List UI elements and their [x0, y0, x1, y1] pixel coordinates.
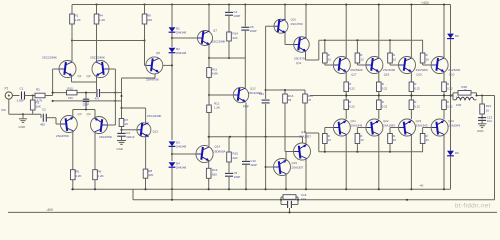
svg-text:Q2: Q2 — [87, 74, 91, 78]
transistor Q11 2SC4793 — [294, 37, 310, 65]
svg-text:R: R — [328, 53, 330, 57]
svg-text:10: 10 — [360, 138, 364, 142]
node output dots — [345, 94, 453, 96]
resistor R11 6.8K — [207, 67, 218, 77]
wire drvA2 emitter — [285, 152, 294, 160]
capacitor C8 220P — [83, 92, 90, 110]
transistor Q5 2SA970K — [146, 51, 163, 82]
transistor Q6 2SC2240K — [137, 114, 162, 137]
wire Q2 emitter — [96, 77, 98, 83]
resistor R12 1.2K — [207, 101, 220, 112]
svg-text:Q14: Q14 — [215, 145, 221, 149]
svg-text:Q5: Q5 — [156, 51, 160, 55]
wire R14 down — [228, 41, 230, 58]
svg-text:0.22: 0.22 — [382, 86, 388, 90]
wire Q7 collector — [208, 5, 210, 32]
svg-text:1.0uF: 1.0uF — [17, 99, 25, 103]
svg-text:6.8K: 6.8K — [212, 72, 218, 76]
node +40V label — [421, 1, 430, 5]
wire emitter join line — [72, 81, 97, 83]
wire Q19 to out — [410, 92, 412, 97]
wire Q17 emitter — [345, 72, 347, 82]
resistor emitter Q20 — [442, 82, 453, 92]
svg-text:2SC2240K: 2SC2240K — [90, 55, 106, 59]
connector P1 input jack — [5, 87, 13, 100]
svg-text:R13: R13 — [212, 168, 218, 172]
svg-text:Q20: Q20 — [449, 73, 455, 77]
wire C5 stub — [244, 5, 246, 27]
wire R1 to node A — [71, 24, 73, 41]
node -40V label — [46, 208, 54, 212]
transistor Q10 2SC4793 — [274, 18, 303, 34]
wire loop bottom — [122, 107, 146, 109]
resistor base Q17 — [323, 40, 334, 65]
resistor base Q19 — [388, 40, 399, 65]
svg-text:R: R — [360, 53, 362, 57]
svg-text:Q4: Q4 — [87, 112, 91, 116]
resistor emitter Q24 — [442, 96, 453, 110]
wire R11 to base node — [208, 77, 210, 95]
node fb lower dots — [52, 100, 117, 102]
wire drvA2 base — [266, 166, 273, 168]
wire Q1 emitter — [71, 77, 73, 83]
capacitor C16 zobel — [284, 201, 296, 208]
svg-text:R1: R1 — [75, 14, 79, 18]
svg-text:470: 470 — [95, 97, 100, 101]
capacitor C6 100P — [225, 171, 240, 179]
svg-text:2SC5200: 2SC5200 — [383, 68, 395, 72]
resistor R10 150 — [67, 86, 78, 100]
wire R3 to ground bus — [32, 110, 34, 114]
wire R9 stub — [144, 5, 146, 15]
svg-text:2SD669A: 2SD669A — [213, 150, 225, 154]
svg-text:C2: C2 — [42, 108, 46, 112]
resistor R1 1.2K — [70, 14, 81, 25]
node lower rail dots — [72, 188, 96, 190]
svg-text:10: 10 — [328, 138, 332, 142]
transistor Q18 2SC5200 — [366, 57, 396, 77]
wire Q9 emitter — [208, 162, 210, 169]
resistor emitter Q21 — [344, 96, 355, 110]
wire R4 top stub — [96, 5, 98, 15]
wire zobel to rail — [289, 208, 291, 212]
svg-text:Q17: Q17 — [351, 73, 357, 77]
svg-text:10: 10 — [360, 58, 364, 62]
svg-text:2SC2240K: 2SC2240K — [42, 55, 58, 59]
svg-text:104: 104 — [301, 197, 306, 201]
svg-text:110P: 110P — [250, 163, 257, 167]
wire R21 to C13 — [481, 114, 483, 119]
svg-text:820: 820 — [212, 172, 217, 176]
svg-text:2N4148: 2N4148 — [176, 31, 187, 35]
wire drvA collector — [284, 5, 286, 20]
resistor base Q24 — [420, 128, 431, 152]
wire output to D6 — [450, 96, 452, 151]
wire zobel loop — [281, 197, 298, 205]
wire Q20 to out — [443, 92, 445, 97]
wire Q18 to out — [378, 92, 380, 97]
transistor Q1 2SC2240K — [42, 55, 82, 78]
node D4 rail dot — [171, 188, 173, 190]
node tail joins — [85, 108, 87, 110]
wire C4 to R14 — [228, 16, 230, 32]
wire loop left — [121, 78, 123, 108]
resistor R6 1.2K — [93, 169, 104, 179]
node -40 right label — [419, 184, 424, 188]
wire out to right — [477, 95, 495, 97]
resistor emitter Q17 — [344, 82, 355, 92]
wire rail right drop — [450, 5, 452, 34]
svg-text:R: R — [393, 53, 395, 57]
node out node — [475, 94, 483, 96]
resistor R15 220 — [227, 152, 238, 163]
svg-text:R: R — [393, 134, 395, 138]
resistor R14 220 — [227, 32, 238, 42]
svg-text:R: R — [426, 134, 428, 138]
svg-text:10: 10 — [426, 58, 430, 62]
diode D2 2N4148 — [169, 47, 187, 55]
node diode rail dot — [171, 3, 173, 5]
wire D4 down — [171, 167, 173, 189]
wire Q5 right link — [163, 64, 172, 66]
resistor R13 820 — [206, 168, 217, 178]
wire R7 to node — [121, 127, 123, 134]
wire Q20 collector — [443, 3, 445, 57]
svg-text:0.22: 0.22 — [447, 104, 453, 108]
wire drvA base — [265, 26, 274, 91]
resistor R18 10 — [453, 85, 477, 96]
node loop corner — [120, 95, 122, 109]
wire Q9 base link — [172, 153, 196, 155]
node zobel dots — [280, 199, 408, 214]
wire Q19 collector — [410, 3, 412, 57]
wire 6.8K stub — [208, 58, 210, 68]
node C4 rail dot — [228, 3, 230, 5]
svg-text:L1: L1 — [457, 95, 460, 99]
svg-text:C11: C11 — [259, 92, 264, 96]
node lower base taps — [324, 151, 391, 153]
svg-text:2SC4793: 2SC4793 — [291, 22, 303, 26]
svg-text:Q7: Q7 — [213, 29, 217, 33]
resistor base Q23 — [388, 128, 399, 152]
ground GND fb — [117, 136, 127, 151]
wire output down right — [494, 96, 496, 200]
node upper base taps — [324, 39, 391, 41]
wire diode col to -rail — [171, 189, 173, 201]
wire loop top — [122, 77, 156, 79]
transistor Q4 2SA970K — [87, 112, 114, 139]
node watermark — [455, 203, 491, 210]
node R4 rail dot — [95, 3, 97, 5]
diode D1 2N4148 — [169, 27, 187, 35]
node Q8 base node — [208, 94, 210, 96]
svg-text:10: 10 — [393, 58, 397, 62]
wire Q4 emitter — [94, 110, 96, 118]
transistor Q3 2SA970K — [56, 112, 82, 138]
svg-text:R: R — [360, 134, 362, 138]
inductor L1 — [453, 95, 477, 107]
wire B2 top stub — [302, 137, 304, 143]
wire +40V top rail — [72, 4, 451, 6]
wire R1 top stub — [71, 5, 73, 15]
svg-text:D6: D6 — [455, 151, 459, 155]
node A Q1 collector — [71, 39, 73, 41]
capacitor C5 100P — [241, 25, 256, 33]
transistor Q2 2SC2240K — [87, 55, 110, 78]
resistor R9 220 — [142, 14, 152, 25]
wire R21 branch — [481, 96, 483, 105]
svg-text:56: 56 — [288, 98, 292, 102]
svg-text:2SA970K: 2SA970K — [99, 135, 113, 139]
resistor R7 1K — [119, 118, 128, 126]
svg-text:GND: GND — [477, 129, 483, 133]
resistor R3 10K — [30, 100, 40, 110]
svg-text:450: 450 — [40, 123, 45, 127]
wire VAS mid line — [208, 136, 303, 138]
node C5 rail dot — [244, 3, 246, 5]
wire R8 bottom — [144, 178, 146, 190]
resistor base Q22 — [355, 128, 366, 152]
node fb upper dots — [52, 92, 117, 94]
node Q9 link dot — [171, 153, 173, 155]
resistor R22 zobel — [283, 193, 307, 201]
svg-text:2SC2240K: 2SC2240K — [212, 40, 226, 44]
wire Q8 emitter — [243, 103, 249, 138]
svg-text:0.22: 0.22 — [382, 104, 388, 108]
transistor Q19 2SC5200 — [399, 57, 429, 77]
wire ground bus — [9, 114, 41, 117]
resistor R5 1.2K — [71, 169, 82, 179]
svg-text:R6: R6 — [98, 169, 102, 173]
resistor R21 10 — [480, 104, 492, 114]
wire Q2 collector — [96, 24, 98, 61]
diode D5 — [447, 34, 459, 39]
wire R12 wires — [208, 95, 210, 146]
ground GND input — [19, 114, 28, 129]
wire speaker return line — [133, 199, 495, 201]
svg-text:1.2K: 1.2K — [75, 174, 81, 178]
node Q6 base node — [120, 129, 122, 131]
svg-text:220: 220 — [233, 156, 238, 160]
wire D2 down — [171, 53, 173, 140]
wire Q18 emitter — [378, 72, 380, 82]
svg-text:2SA970K: 2SA970K — [146, 78, 160, 82]
svg-text:R11: R11 — [212, 67, 217, 71]
svg-text:0.22: 0.22 — [414, 86, 420, 90]
wire C11 down — [265, 137, 267, 191]
wire Q24 emitter — [443, 110, 445, 120]
wire D3 D4 — [171, 147, 173, 161]
node output split — [449, 94, 453, 96]
diode D3 2N4148 — [169, 141, 187, 149]
svg-text:10: 10 — [328, 58, 332, 62]
svg-text:2SA1837: 2SA1837 — [292, 165, 304, 169]
wire Q24 collector — [443, 135, 445, 191]
wire Q17 collector — [345, 3, 347, 57]
svg-text:1.2K: 1.2K — [214, 106, 220, 110]
wire drvB2 emitter — [306, 133, 319, 152]
svg-text:220: 220 — [233, 36, 238, 40]
transistor Q22 2SA1943 — [366, 119, 395, 136]
svg-text:-40V: -40V — [46, 208, 54, 212]
svg-text:10R: 10R — [456, 103, 461, 107]
wire drvA2 collector — [285, 174, 287, 191]
wire Q8 base link — [209, 94, 234, 96]
wire mid bus y90 — [266, 89, 305, 91]
svg-text:100P: 100P — [234, 14, 241, 18]
resistor emitter Q18 — [377, 82, 388, 92]
svg-text:GND: GND — [117, 147, 123, 151]
wire D5 to output — [450, 39, 452, 96]
svg-text:2SC5200: 2SC5200 — [416, 68, 428, 72]
wire Q4 collector — [94, 133, 96, 170]
svg-text:10: 10 — [464, 88, 467, 92]
wire VAS base line — [72, 40, 145, 42]
transistor Q21 2SA1943 — [333, 119, 362, 136]
wire C4 stub — [228, 5, 230, 12]
resistor base Q18 — [355, 40, 366, 65]
capacitor C2 450 — [40, 108, 46, 127]
wire C1 to R2 — [25, 95, 36, 97]
wire R15 wires — [228, 137, 230, 173]
resistor base Q20 — [420, 40, 431, 65]
svg-text:Q13: Q13 — [153, 130, 159, 134]
svg-text:R5: R5 — [75, 169, 79, 173]
svg-text:2SA970K: 2SA970K — [56, 134, 70, 138]
svg-text:150: 150 — [68, 96, 73, 100]
svg-text:47: 47 — [308, 98, 312, 102]
resistor R17 47 — [303, 94, 314, 103]
wire Q4 base link — [107, 124, 115, 126]
svg-text:2SA1943: 2SA1943 — [350, 123, 362, 127]
wire fb lower line — [53, 100, 116, 102]
wire R9 down — [144, 24, 146, 41]
transistor Q24 2SA1943 — [431, 119, 460, 136]
wire D6 to lower rail — [450, 156, 452, 189]
wire diode top — [171, 5, 173, 28]
wire Q6 emitter — [145, 137, 147, 170]
svg-text:R: R — [426, 53, 428, 57]
svg-text:2SC2240K: 2SC2240K — [147, 114, 162, 118]
wire C6 down — [228, 177, 230, 190]
svg-text:1.2K: 1.2K — [99, 18, 105, 22]
svg-text:104: 104 — [487, 119, 492, 123]
transistor Q15 2SA1837 — [274, 159, 304, 176]
wire Q23 emitter — [410, 110, 412, 120]
wire Q19 emitter — [410, 72, 412, 82]
wire input shunt drop — [32, 96, 34, 101]
svg-text:+40V: +40V — [421, 1, 430, 5]
wire rail join left — [132, 189, 134, 200]
node input junction — [32, 94, 34, 96]
wire lower collector rail — [71, 188, 451, 190]
svg-text:10: 10 — [393, 138, 397, 142]
wire drvB2 collector — [305, 159, 307, 190]
svg-text:100P: 100P — [234, 175, 241, 179]
svg-text:R10: R10 — [68, 86, 74, 90]
wire drvB collector — [305, 5, 307, 39]
wire C13 to gnd — [481, 120, 483, 123]
svg-text:R16: R16 — [288, 94, 294, 98]
capacitor C10 110P — [242, 137, 257, 191]
svg-text:220P: 220P — [83, 103, 90, 107]
wire R17 wires — [304, 90, 306, 133]
svg-text:P1: P1 — [5, 87, 9, 91]
resistor R2 4.7k — [35, 88, 45, 103]
wire R16 wires — [284, 89, 286, 152]
svg-text:PNP: PNP — [243, 105, 249, 109]
svg-text:-40: -40 — [419, 184, 424, 188]
svg-text:GND: GND — [19, 125, 27, 129]
wire Q18 collector — [378, 3, 380, 57]
wire to Q5 base — [145, 41, 147, 66]
capacitor C4 100P — [225, 10, 240, 18]
svg-text:47K: 47K — [1, 108, 6, 112]
svg-text:0.22: 0.22 — [414, 104, 420, 108]
svg-text:Q18: Q18 — [384, 73, 390, 77]
wire jack ground drop — [1, 99, 9, 114]
wire Q7 base link — [172, 37, 198, 39]
wire jack to C1 — [12, 95, 19, 97]
svg-text:Q3: Q3 — [78, 112, 82, 116]
diode D6 — [447, 151, 459, 156]
wire Q21 collector — [345, 135, 347, 191]
svg-text:R4: R4 — [99, 14, 103, 18]
transistor Q20 2SC5200 — [431, 57, 461, 77]
capacitor C11 — [259, 90, 270, 138]
ground GND output — [477, 124, 486, 133]
svg-text:2SC5200: 2SC5200 — [350, 68, 362, 72]
svg-text:D5: D5 — [455, 34, 459, 38]
svg-text:R8: R8 — [148, 169, 152, 173]
svg-text:2SA1943: 2SA1943 — [383, 123, 395, 127]
wire Q17 to out — [345, 92, 347, 97]
wire Q3 emitter — [72, 110, 74, 117]
resistor R8 220 — [143, 169, 153, 178]
resistor R4 1.2K — [94, 14, 105, 25]
svg-text:2N4148: 2N4148 — [176, 145, 187, 149]
wire fb upper line — [53, 92, 116, 94]
wire Q7 emitter — [208, 45, 210, 58]
resistor emitter Q19 — [409, 82, 420, 92]
wire upper base line — [319, 39, 423, 41]
wire lower base line — [319, 151, 423, 153]
node VAS mid dots — [208, 57, 230, 59]
svg-text:0.22: 0.22 — [447, 86, 453, 90]
wire fb to loop box — [115, 93, 121, 101]
svg-text:R9: R9 — [147, 14, 151, 18]
svg-text:0.22: 0.22 — [349, 86, 355, 90]
wire drvA emitter — [285, 33, 294, 45]
svg-text:bt-fiddn.net: bt-fiddn.net — [455, 203, 491, 210]
node VAS base node — [143, 39, 145, 41]
wire Q20 emitter — [443, 72, 445, 82]
wire R2 to Q1 base — [45, 69, 60, 96]
svg-text:R12: R12 — [214, 101, 220, 105]
wire lower pair join — [73, 109, 95, 111]
svg-text:R: R — [328, 134, 330, 138]
wire Q5 emitter — [154, 74, 156, 78]
svg-text:220uF: 220uF — [126, 135, 134, 139]
wire Q3 collector — [72, 132, 74, 170]
capacitor C3 220uF — [117, 131, 134, 139]
node D string mid — [171, 37, 173, 39]
svg-text:Q11: Q11 — [296, 61, 302, 65]
wire Q22 collector — [378, 135, 380, 191]
svg-text:2SA1943: 2SA1943 — [416, 123, 428, 127]
wire Q1 collector — [71, 41, 73, 62]
transistor Q8 2SC2240K — [233, 87, 262, 103]
